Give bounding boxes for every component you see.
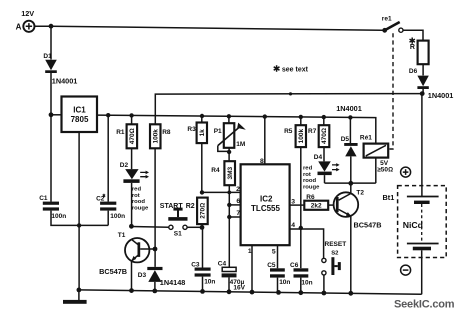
svg-text:IC1: IC1 (73, 105, 86, 114)
capacitor C2 100n (96, 115, 125, 225)
node battery minus terminal (401, 265, 411, 275)
svg-text:1M: 1M (236, 141, 245, 148)
svg-text:3: 3 (291, 198, 295, 205)
resistor R3 1k (187, 116, 207, 192)
svg-text:100k: 100k (298, 128, 305, 143)
timer IC2 TLC555 (241, 164, 290, 245)
svg-text:rouge: rouge (132, 206, 149, 212)
node A 12V input terminal (16, 9, 35, 32)
svg-text:D6: D6 (409, 68, 418, 75)
wire D4/D5/relay to T2 collector (325, 158, 376, 186)
svg-text:≥50Ω: ≥50Ω (377, 166, 393, 173)
svg-text:R8: R8 (162, 129, 171, 136)
switch S1 START pushbutton (131, 203, 202, 238)
svg-text:P1: P1 (214, 128, 222, 135)
pin 5 (272, 245, 278, 268)
svg-text:1N4001: 1N4001 (52, 77, 78, 86)
wire pin2 line (202, 191, 241, 193)
svg-text:D2: D2 (120, 162, 129, 169)
wire sense line y=94 from R8 top to D6 junction (155, 92, 422, 124)
svg-text:BC547B: BC547B (354, 221, 382, 230)
svg-text:D5: D5 (341, 136, 350, 143)
svg-text:R2: R2 (186, 203, 195, 210)
transistor T2 BC547B (334, 183, 382, 293)
wire IC1 ground lead (77, 132, 81, 290)
svg-text:10n: 10n (204, 278, 215, 285)
potentiometer P1 1M (214, 116, 246, 161)
resistor R1 470R (116, 115, 137, 169)
svg-text:1k: 1k (199, 129, 206, 137)
svg-text:BC547B: BC547B (99, 267, 127, 276)
resistor R6 2k2 (304, 194, 336, 210)
svg-text:R3: R3 (187, 126, 196, 133)
svg-text:C6: C6 (290, 262, 299, 269)
svg-text:R5: R5 (284, 128, 293, 135)
see text note (274, 65, 309, 74)
capacitor C6 10n (290, 229, 313, 293)
wire pin6 stub (229, 204, 240, 206)
svg-text:6: 6 (236, 198, 240, 205)
node battery plus terminal (401, 167, 411, 177)
svg-text:IC2: IC2 (260, 195, 273, 204)
wire dashed mechanical link re1 to relay Re1 (388, 33, 393, 149)
svg-text:100n: 100n (110, 213, 125, 220)
battery Bt1 NiCd (383, 94, 447, 295)
svg-text:red: red (303, 166, 313, 172)
switch S2 RESET pushbutton (322, 241, 346, 293)
resistor R4 3M3 (211, 161, 235, 267)
svg-text:red: red (132, 187, 142, 193)
svg-text:7: 7 (236, 210, 240, 217)
svg-text:TLC555: TLC555 (251, 204, 280, 213)
svg-text:S1: S1 (174, 231, 182, 238)
svg-text:R: R (410, 44, 415, 51)
svg-text:1: 1 (248, 248, 252, 255)
svg-text:D3: D3 (138, 272, 147, 279)
diode D1 1N4001 (43, 53, 77, 86)
diode D5 1N4001 flyback (336, 104, 362, 183)
svg-text:470Ω: 470Ω (129, 128, 136, 144)
pin 4 (290, 222, 324, 258)
svg-text:100n: 100n (51, 213, 66, 220)
LED D2 red (120, 162, 149, 227)
svg-text:4: 4 (291, 222, 295, 229)
svg-text:1N4001: 1N4001 (336, 104, 362, 113)
svg-text:1N4148: 1N4148 (160, 278, 186, 287)
svg-text:270Ω: 270Ω (200, 203, 207, 219)
svg-text:2: 2 (236, 186, 240, 193)
node junction D6 / battery / sense wire (420, 91, 425, 96)
ground (63, 290, 87, 304)
svg-text:re1: re1 (382, 15, 392, 22)
diode D6 1N4001 (409, 68, 453, 100)
pin 3 (290, 198, 305, 205)
regulator IC1 7805 (51, 97, 97, 133)
capacitor C3 10n (191, 227, 215, 291)
resistor R8 100k (150, 124, 171, 267)
svg-text:T1: T1 (118, 232, 126, 239)
transistor T1 BC547B (99, 224, 155, 291)
svg-text:Bt1: Bt1 (383, 193, 395, 202)
svg-text:A: A (16, 22, 22, 31)
relay coil Re1 5V (360, 135, 393, 174)
svg-text:rouge: rouge (303, 185, 320, 191)
svg-text:S2: S2 (331, 250, 339, 256)
wire ground bus bottom (77, 288, 422, 296)
svg-text:12V: 12V (21, 9, 34, 18)
svg-text:470Ω: 470Ω (321, 128, 328, 144)
resistor R (see text) top right (410, 38, 429, 76)
svg-text:10n: 10n (279, 279, 290, 286)
pin 8 (260, 117, 265, 165)
diode D3 1N4148 (138, 267, 186, 291)
svg-text:see text: see text (282, 67, 309, 74)
svg-text:R7: R7 (308, 128, 317, 135)
svg-text:3M3: 3M3 (227, 166, 234, 179)
resistor R5 100k (284, 117, 306, 229)
svg-text:R4: R4 (211, 167, 220, 174)
svg-text:C3: C3 (191, 262, 200, 269)
wire pin7 stub (229, 216, 240, 218)
svg-text:1N4001: 1N4001 (428, 91, 454, 100)
relay contact re1 (382, 15, 423, 40)
svg-text:7805: 7805 (71, 115, 89, 124)
svg-text:100k: 100k (152, 129, 159, 144)
svg-text:rot: rot (303, 172, 311, 178)
svg-text:rood: rood (303, 178, 316, 184)
svg-text:C5: C5 (267, 262, 276, 269)
svg-text:rood: rood (132, 199, 145, 205)
svg-text:2k2: 2k2 (311, 203, 322, 210)
capacitor C4 470u 16V electrolytic (218, 261, 246, 292)
capacitor C5 10n (267, 262, 290, 292)
LED D4 red (303, 154, 340, 190)
svg-text:Ré1: Ré1 (360, 135, 372, 142)
svg-text:D1: D1 (43, 53, 52, 60)
svg-text:10n: 10n (301, 279, 312, 286)
pin 1 (248, 245, 252, 292)
wire 12V top rail from A to relay contact re1 (35, 24, 385, 30)
svg-text:NiCd: NiCd (403, 220, 423, 230)
svg-text:SeekIC.com: SeekIC.com (394, 298, 455, 310)
svg-text:RESET: RESET (325, 241, 347, 248)
svg-text:T2: T2 (356, 190, 364, 197)
svg-text:16V: 16V (233, 284, 245, 291)
svg-text:C1: C1 (39, 195, 48, 202)
wire input column x=51 down to C1 (49, 26, 54, 202)
svg-text:rot: rot (132, 193, 140, 199)
svg-text:D4: D4 (314, 154, 323, 161)
resistor R2 270R (197, 190, 208, 230)
svg-text:5: 5 (272, 249, 276, 256)
resistor R7 470R (308, 117, 329, 161)
wire +5V rail (97, 113, 376, 144)
svg-text:R1: R1 (116, 129, 125, 136)
svg-text:8: 8 (260, 158, 264, 165)
capacitor C1 100n (39, 195, 108, 226)
